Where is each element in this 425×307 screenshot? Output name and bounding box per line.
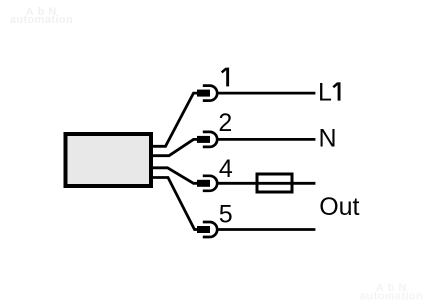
svg-text:N: N bbox=[319, 124, 337, 152]
svg-text:2: 2 bbox=[218, 109, 232, 137]
svg-text:4: 4 bbox=[219, 155, 233, 183]
svg-text:5: 5 bbox=[219, 201, 233, 229]
svg-text:Out: Out bbox=[319, 193, 359, 221]
svg-text:L: L bbox=[318, 79, 332, 107]
svg-text:automation: automation bbox=[360, 291, 423, 303]
svg-text:automation: automation bbox=[10, 14, 73, 26]
